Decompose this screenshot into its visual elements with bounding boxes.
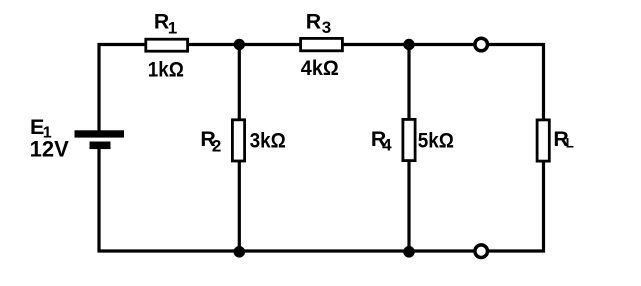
battery E1 short plate bbox=[90, 142, 111, 150]
node junction dot top-left (R1/R3/R2 net) bbox=[234, 39, 245, 50]
svg-text:4kΩ: 4kΩ bbox=[301, 56, 339, 80]
svg-text:RL: RL bbox=[553, 127, 573, 151]
svg-text:R2: R2 bbox=[200, 127, 221, 155]
wire: outer loop (top, right, bottom, left sides with battery gap) bbox=[99, 45, 544, 252]
resistor R3 body bbox=[301, 38, 343, 50]
svg-text:1kΩ: 1kΩ bbox=[148, 57, 184, 81]
svg-text:3kΩ: 3kΩ bbox=[250, 128, 286, 152]
battery E1 long plate bbox=[75, 130, 125, 137]
wire: R2 branch vertical at x=239 bbox=[238, 45, 241, 252]
svg-text:5kΩ: 5kΩ bbox=[418, 128, 454, 152]
resistor R1 body bbox=[146, 39, 188, 51]
node junction dot bottom-right (R4 bottom net) bbox=[403, 246, 415, 258]
svg-text:R3: R3 bbox=[306, 10, 332, 38]
resistor R2 body bbox=[232, 120, 244, 161]
terminal open circle bottom bbox=[475, 245, 488, 258]
resistor RL body bbox=[537, 120, 549, 161]
terminal open circle top bbox=[475, 38, 488, 51]
node junction dot bottom-left (R2 bottom net) bbox=[234, 246, 246, 258]
resistor R4 body bbox=[403, 119, 415, 160]
svg-text:R4: R4 bbox=[371, 127, 392, 155]
svg-text:12V: 12V bbox=[30, 137, 69, 162]
node junction dot top-right (R3/R4 net) bbox=[403, 39, 414, 50]
wire: R4 branch vertical at x=409 bbox=[407, 45, 410, 252]
svg-text:R1: R1 bbox=[154, 9, 177, 37]
